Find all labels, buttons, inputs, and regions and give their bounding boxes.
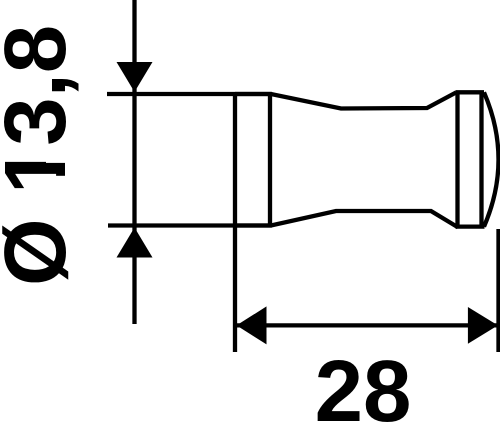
band left line bbox=[455, 91, 459, 228]
dimension line vertical (Ø13,8) bbox=[132, 0, 136, 324]
collar line bbox=[268, 92, 272, 227]
arrow right (28 dim) bbox=[468, 307, 498, 344]
dimension line horizontal (28) bbox=[236, 323, 498, 327]
extension line bottom (y=225) bbox=[108, 223, 272, 227]
extension line top (y=94) bbox=[107, 92, 272, 96]
arrow left (28 dim) bbox=[237, 306, 267, 344]
end cap arc bbox=[484, 92, 499, 226]
svg-text:Ø 13,8: Ø 13,8 bbox=[0, 25, 84, 286]
top profile of part bbox=[235, 93, 456, 109]
right extension line for 28 bbox=[496, 229, 500, 352]
mask foot serif of digit 1 bbox=[46, 147, 70, 163]
bottom profile of part bbox=[235, 211, 458, 227]
band bottom edge bbox=[456, 224, 485, 228]
band top edge bbox=[456, 90, 485, 94]
arrow down (top of Ø dim) bbox=[117, 62, 153, 92]
arrow up (bottom of Ø dim) bbox=[117, 228, 153, 258]
svg-text:28: 28 bbox=[315, 343, 412, 423]
band right line bbox=[479, 91, 483, 228]
part left face + extension line for 28 bbox=[233, 92, 237, 352]
